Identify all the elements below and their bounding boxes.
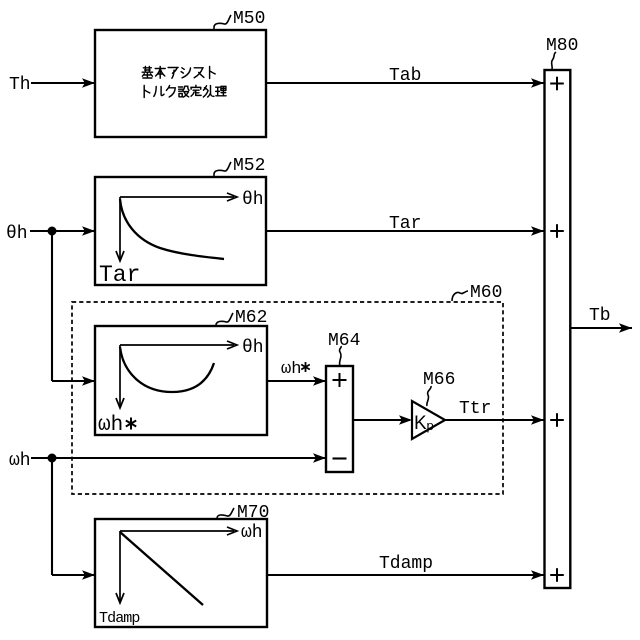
svg-text:Tar: Tar	[99, 262, 140, 288]
svg-text:M50: M50	[233, 9, 265, 29]
svg-text:M70: M70	[237, 503, 269, 523]
svg-text:ωh: ωh	[241, 523, 263, 543]
svg-text:Ttr: Ttr	[459, 399, 491, 419]
svg-text:Tdamp: Tdamp	[99, 610, 140, 627]
svg-text:M60: M60	[470, 283, 502, 303]
svg-text:K: K	[414, 413, 427, 434]
svg-text:ωh: ωh	[98, 414, 123, 437]
svg-text:Tb: Tb	[589, 306, 611, 326]
svg-text:Tar: Tar	[389, 214, 421, 234]
svg-text:θh: θh	[242, 338, 264, 358]
svg-text:ωh: ωh	[281, 360, 301, 379]
svg-text:M52: M52	[233, 156, 265, 176]
svg-text:M62: M62	[235, 308, 267, 328]
svg-text:θh: θh	[242, 190, 264, 210]
svg-text:M66: M66	[423, 370, 455, 390]
svg-text:ωh: ωh	[9, 451, 31, 471]
svg-text:Tdamp: Tdamp	[379, 554, 433, 574]
svg-text:Tab: Tab	[389, 66, 421, 86]
svg-text:θh: θh	[6, 224, 28, 244]
svg-text:M80: M80	[546, 36, 578, 56]
svg-text:M64: M64	[328, 331, 360, 351]
svg-text:Th: Th	[9, 75, 31, 95]
svg-text:p: p	[427, 418, 434, 433]
